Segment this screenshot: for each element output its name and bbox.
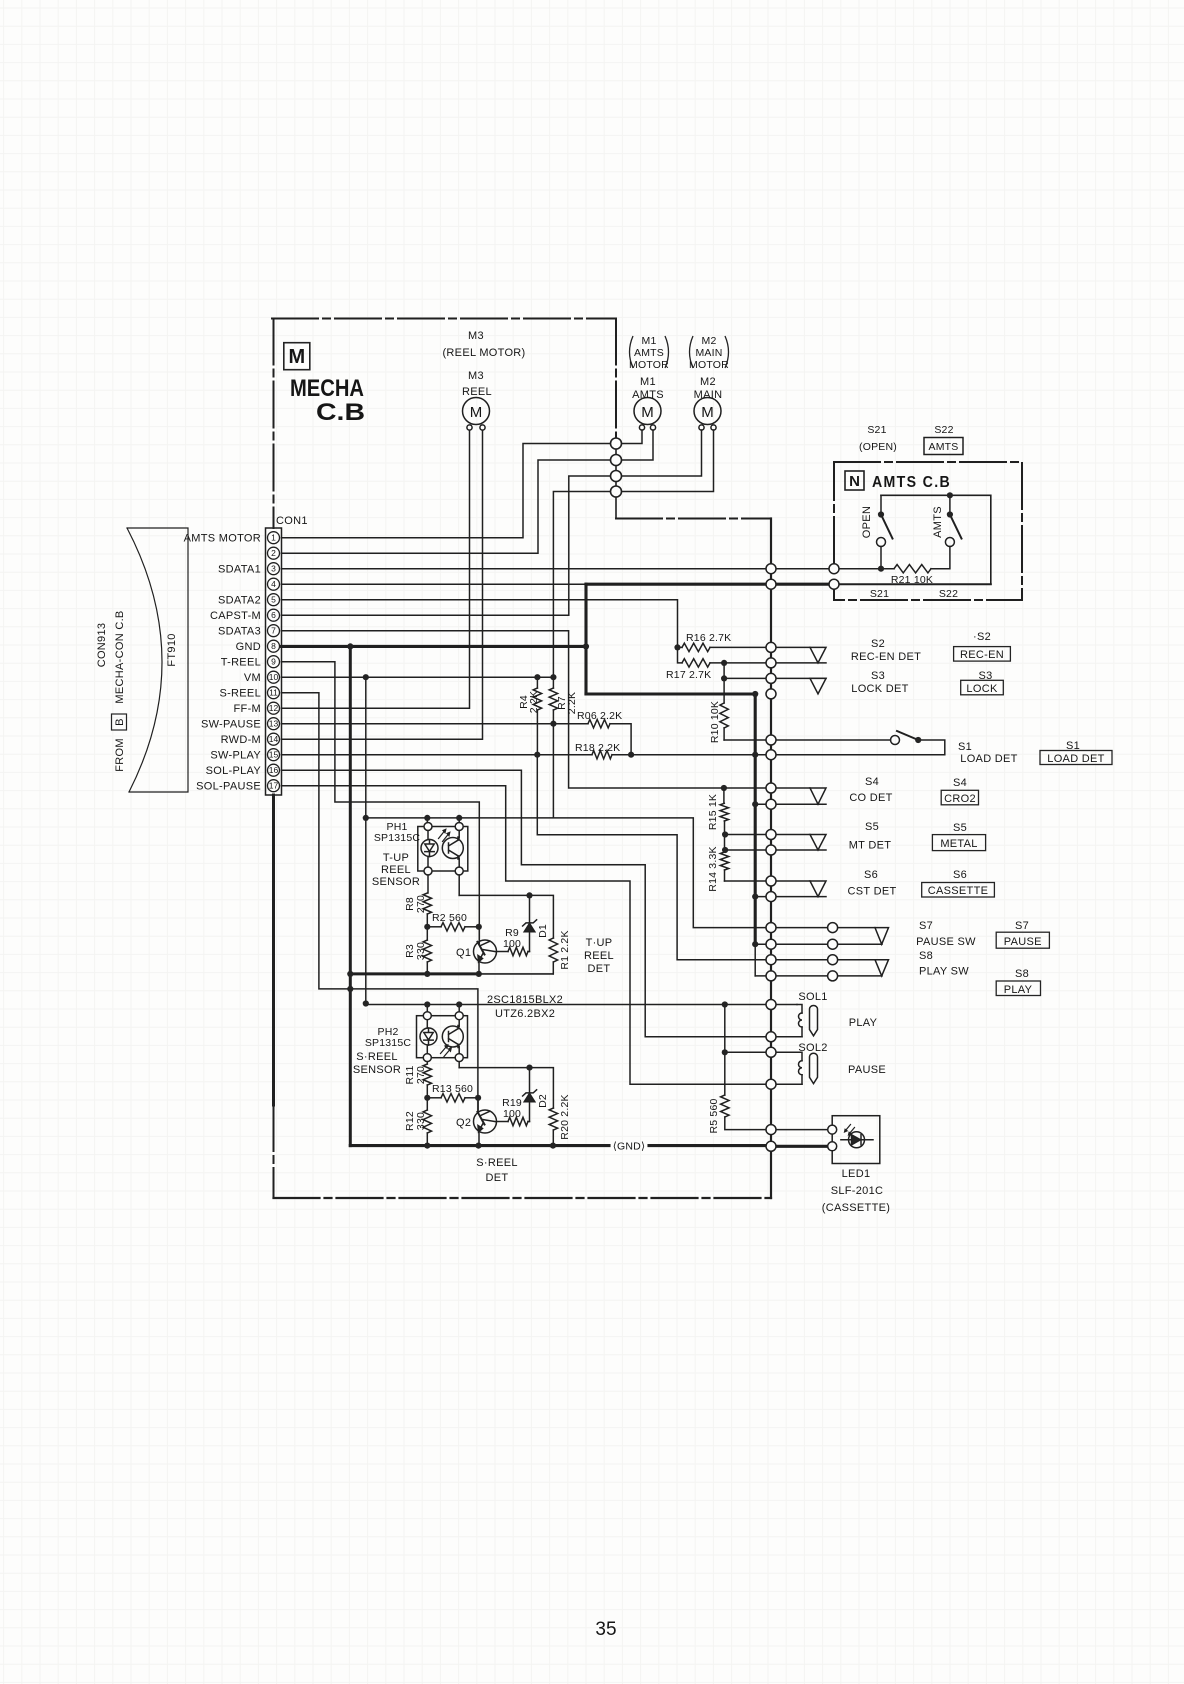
LED1 terminal circles xyxy=(828,1125,837,1151)
label pin 5 SDATA2 xyxy=(218,595,261,607)
label R4 2.2K (rotated) xyxy=(518,695,530,709)
motor M2 symbol xyxy=(694,398,721,431)
svg-text:⟨GND⟩: ⟨GND⟩ xyxy=(613,1141,646,1153)
node: connector arrow triangle S7 xyxy=(875,928,889,945)
node: CON1 pin 6 xyxy=(268,609,280,621)
label .S2 and box REC-EN xyxy=(954,631,1011,661)
resistor R5 560 xyxy=(721,1052,766,1129)
svg-text:LOCK: LOCK xyxy=(966,683,998,695)
label R10 10K (rotated) xyxy=(709,701,721,743)
svg-text:CAPST-M: CAPST-M xyxy=(210,610,261,622)
svg-text:REEL: REEL xyxy=(584,950,614,962)
solenoid SOL2 coil xyxy=(776,1052,803,1084)
wire: SOL1 top feed from VM supply xyxy=(366,1004,797,1005)
wire: LED1 anode row xyxy=(776,1129,828,1131)
label S7 and box PAUSE xyxy=(996,920,1049,948)
label S2 REC-EN DET xyxy=(851,638,921,663)
svg-text:S21: S21 xyxy=(870,588,889,600)
label T-UP REEL DET xyxy=(584,937,614,975)
svg-text:S·REEL: S·REEL xyxy=(476,1157,518,1169)
resistor R7 2.2K (pull-up from VM) xyxy=(549,677,557,724)
label CON913 (rotated) xyxy=(96,623,108,668)
svg-text:S1: S1 xyxy=(958,741,972,753)
svg-text:Q2: Q2 xyxy=(456,1117,471,1129)
svg-text:FROM: FROM xyxy=(114,738,126,772)
node: connector arrow triangle S2 xyxy=(810,647,826,663)
node: CON1 pin 15 xyxy=(268,749,280,761)
label Q2 xyxy=(456,1117,471,1129)
wire: AMTS inner circuit frame xyxy=(881,495,991,584)
label S5 MT DET xyxy=(849,821,892,852)
svg-text:R13 560: R13 560 xyxy=(432,1083,473,1095)
svg-text:S6: S6 xyxy=(953,869,967,881)
svg-text:S3: S3 xyxy=(871,670,885,682)
svg-text:T·UP: T·UP xyxy=(586,937,613,949)
wire: SW-PLAY chain down to S8 PLAY SW row xyxy=(537,755,875,960)
photo-interrupter PH2 box xyxy=(417,1016,468,1058)
wire: MECHA C.B board border right / junction bus vertical xyxy=(770,519,772,1199)
wire: M1 AMTS motor leads to junction circles xyxy=(622,430,654,460)
label OPEN (rotated) xyxy=(861,506,873,538)
svg-text:AMTS: AMTS xyxy=(929,441,959,453)
label Q1 xyxy=(456,947,471,959)
svg-text:R1 2.2K: R1 2.2K xyxy=(559,930,571,969)
svg-text:PAUSE: PAUSE xyxy=(1004,936,1042,948)
label pin 3 SDATA1 xyxy=(218,564,261,576)
svg-text:M2: M2 xyxy=(700,376,716,388)
svg-text:R14 3.3K: R14 3.3K xyxy=(707,846,719,891)
svg-text:330: 330 xyxy=(415,942,427,960)
svg-text:·S2: ·S2 xyxy=(973,631,991,643)
label R5 560 (rotated) xyxy=(708,1098,720,1133)
node: CON1 pin 9 xyxy=(268,656,280,668)
resistor R11 270 xyxy=(423,1064,431,1098)
label pin 7 SDATA3 xyxy=(218,626,261,638)
svg-text:16: 16 xyxy=(269,765,279,775)
wire: thick bus vertical at x=755 xyxy=(754,694,757,976)
wire: AMTS C.B border (dash-dot) xyxy=(834,462,1022,600)
label S22 above xyxy=(934,424,953,436)
svg-text:D1: D1 xyxy=(537,924,549,938)
svg-text:M1: M1 xyxy=(642,335,657,347)
svg-text:R10 10K: R10 10K xyxy=(709,701,721,743)
svg-text:SP1315C: SP1315C xyxy=(374,832,421,844)
resistor R21 10K body xyxy=(894,565,931,573)
label M2 MAIN xyxy=(694,376,723,401)
svg-text:S21: S21 xyxy=(867,424,886,436)
label R19 100 xyxy=(502,1097,522,1120)
label S8 PLAY SW xyxy=(919,950,969,978)
svg-text:MOTOR: MOTOR xyxy=(689,359,729,371)
svg-text:AMTS: AMTS xyxy=(632,389,664,401)
label pin 9 T-REEL xyxy=(221,657,261,669)
svg-text:2.2K: 2.2K xyxy=(566,692,578,714)
node junction dots xyxy=(347,643,353,649)
label R14 3.3K (rotated) xyxy=(707,846,719,891)
svg-text:M1: M1 xyxy=(640,376,656,388)
node: CON1 pin 2 xyxy=(268,547,280,559)
svg-text:LOAD DET: LOAD DET xyxy=(1047,753,1104,765)
svg-text:S22: S22 xyxy=(939,588,958,600)
phototransistor inside PH1 xyxy=(442,837,463,859)
svg-text:270: 270 xyxy=(415,1066,427,1084)
wire: pin15 SW-PLAY / R18 row to S1 switch xyxy=(282,740,945,755)
label R18 2.2K xyxy=(575,742,620,754)
resistor R20 2.2K xyxy=(549,1108,557,1146)
label S7 PAUSE SW xyxy=(916,920,976,948)
label pin 1 AMTS MOTOR xyxy=(184,533,261,545)
wire: junction circle row4 to VM line xyxy=(553,492,610,678)
svg-text:MECHA: MECHA xyxy=(290,375,364,402)
resistor R15 1K xyxy=(720,788,728,850)
svg-text:REC-EN: REC-EN xyxy=(960,649,1004,661)
node: CON1 pin 10 xyxy=(268,671,280,683)
label R12 330 (rotated) xyxy=(404,1111,416,1131)
svg-text:FT910: FT910 xyxy=(166,633,178,666)
solenoid SOL1 coil xyxy=(776,1005,803,1037)
svg-text:PAUSE: PAUSE xyxy=(848,1064,886,1076)
wire: pin8 GND thick row xyxy=(282,645,587,648)
label M1 AMTS xyxy=(632,376,664,401)
node: CON1 pin 13 xyxy=(268,718,280,730)
label R1 2.2K (rotated) xyxy=(559,930,571,969)
label R15 1K (rotated) xyxy=(707,794,719,830)
label S21 (OPEN) above xyxy=(859,424,897,453)
resistor R14 3.3K xyxy=(720,852,728,881)
label S21 bottom xyxy=(870,588,889,600)
label pin 10 VM xyxy=(244,672,261,684)
node: connector arrow triangle S3 xyxy=(810,678,826,694)
node: CON1 pin 12 xyxy=(268,702,280,714)
label R9 100 xyxy=(503,927,521,950)
zener diode D2 xyxy=(523,1068,537,1122)
wire: pin6 CAPST-M to junction circle row3 xyxy=(282,476,611,615)
svg-text:PLAY: PLAY xyxy=(849,1017,878,1029)
svg-text:SDATA3: SDATA3 xyxy=(218,626,261,638)
svg-text:2: 2 xyxy=(271,548,276,558)
node: board-edge circles on MECHA right bus xyxy=(766,564,776,574)
transistor Q1 xyxy=(474,927,497,974)
svg-text:REEL: REEL xyxy=(462,386,492,398)
label pin 12 FF-M xyxy=(234,703,261,715)
svg-text:S7: S7 xyxy=(919,920,933,932)
svg-text:15: 15 xyxy=(269,750,279,760)
svg-text:M: M xyxy=(288,346,305,368)
label S1 and box LOAD DET xyxy=(1040,740,1112,765)
wire: VM vertical supply drop x=366 xyxy=(365,677,367,1003)
resistor R12 330 xyxy=(423,1098,431,1146)
node: circles on S7/S8 rows x=832.6 xyxy=(828,923,838,933)
wire: M2 MAIN motor leads to junction circles xyxy=(622,430,714,492)
svg-text:10: 10 xyxy=(269,672,279,682)
connector CON913 cable bracket xyxy=(127,528,188,792)
wire: SOL2 top feed and R5 tap xyxy=(725,1005,797,1053)
wire: PH2 LED terminal leads xyxy=(426,1005,428,1065)
resistor R13 560 xyxy=(427,1094,478,1102)
label R16 2.7K xyxy=(686,632,731,644)
node: CON1 pin 11 xyxy=(268,687,280,699)
wire: MECHA C.B board border left solid segment below CON1 xyxy=(272,795,275,1105)
svg-text:DET: DET xyxy=(588,963,611,975)
node: CON1 pin 8 xyxy=(268,640,280,652)
svg-text:SOL2: SOL2 xyxy=(798,1042,827,1054)
solenoid SOL1 plunger xyxy=(810,1006,818,1036)
svg-text:R21 10K: R21 10K xyxy=(891,574,933,586)
svg-text:M2: M2 xyxy=(702,335,717,347)
svg-text:SP1315C: SP1315C xyxy=(365,1037,412,1049)
label S4 CO DET xyxy=(849,776,892,804)
svg-text:VM: VM xyxy=(244,672,261,684)
wire: S5 MT DET row A xyxy=(725,834,810,836)
svg-text:RWD-M: RWD-M xyxy=(221,734,261,746)
svg-text:S5: S5 xyxy=(953,822,967,834)
svg-text:35: 35 xyxy=(595,1619,616,1640)
LED inside PH2 xyxy=(420,1028,437,1045)
wire: pin1 AMTS MOTOR to junction circle row1 xyxy=(282,444,611,538)
phototransistor inside PH2 xyxy=(442,1026,463,1048)
svg-text:S8: S8 xyxy=(1015,968,1029,980)
wire: pin3 SDATA1 line to AMTS C.B xyxy=(282,547,950,569)
svg-text:SW-PAUSE: SW-PAUSE xyxy=(201,719,261,731)
label M1 AMTS MOTOR with parens xyxy=(629,335,669,371)
label pin 13 SW-PAUSE xyxy=(201,719,261,731)
wire: MECHA C.B board border left lower (dash-dot) xyxy=(273,1105,275,1198)
svg-text:M: M xyxy=(641,404,654,421)
wire: pin5 SDATA2 drop to R16 xyxy=(282,600,678,648)
wire: pin9 T-REEL to Q1 xyxy=(282,662,480,940)
PH1 terminal circles xyxy=(424,823,432,831)
wire: PH1 phototransistor leads xyxy=(458,818,460,896)
label R21 10K xyxy=(891,574,933,586)
label FROM B MECHA-CON C.B (rotated) xyxy=(114,738,126,772)
svg-text:2.2K: 2.2K xyxy=(528,691,540,713)
label S8 and box PLAY xyxy=(996,968,1040,996)
wire: thick bus horizontal y=694 xyxy=(586,692,755,695)
svg-text:4: 4 xyxy=(271,579,276,589)
wire: T-UP sensor ground rail xyxy=(350,972,553,975)
svg-text:SOL-PAUSE: SOL-PAUSE xyxy=(196,781,261,793)
resistor R16 2.7K xyxy=(678,643,811,651)
wire: MECHA C.B board border right upper (dash-dot) xyxy=(615,319,617,438)
svg-text:SOL-PLAY: SOL-PLAY xyxy=(206,765,262,777)
label R7 2.2K (rotated) xyxy=(556,696,568,710)
label M2 MAIN MOTOR with parens xyxy=(689,335,729,371)
label SOL1 PLAY xyxy=(798,991,877,1029)
svg-text:330: 330 xyxy=(415,1112,427,1130)
label pin 11 S-REEL xyxy=(219,688,261,700)
svg-text:PAUSE SW: PAUSE SW xyxy=(916,936,976,948)
svg-text:11: 11 xyxy=(269,688,278,698)
svg-text:S22: S22 xyxy=(934,424,953,436)
wire: pin7 SDATA3 to S4 CO DET row xyxy=(282,631,811,788)
node: connector arrow triangle S5 xyxy=(810,835,826,851)
LED1 box xyxy=(832,1116,880,1164)
svg-text:LOCK DET: LOCK DET xyxy=(851,683,908,695)
wire: pin4/VC thick bus to AMTS C.B xyxy=(586,583,991,586)
wire: thick bus vertical at x=586 xyxy=(584,584,587,694)
svg-text:D2: D2 xyxy=(537,1094,549,1108)
svg-text:M: M xyxy=(701,404,714,421)
LED inside PH1 xyxy=(421,840,438,857)
svg-text:CRO2: CRO2 xyxy=(944,793,976,805)
svg-text:S·REEL: S·REEL xyxy=(356,1051,398,1063)
label PH1 SP1315C xyxy=(374,821,421,844)
zener diode D1 xyxy=(523,895,537,951)
svg-text:REEL: REEL xyxy=(381,864,411,876)
svg-text:270: 270 xyxy=(415,895,427,913)
connector CON1 body xyxy=(266,528,282,795)
svg-text:S8: S8 xyxy=(919,950,933,962)
wire: MECHA C.B border vertical through junction circles xyxy=(615,438,617,519)
label M3 REEL xyxy=(462,370,492,398)
svg-text:LED1: LED1 xyxy=(842,1168,871,1180)
box: board designator M xyxy=(284,343,310,370)
svg-text:FF-M: FF-M xyxy=(234,703,261,715)
svg-text:REC-EN DET: REC-EN DET xyxy=(851,651,921,663)
svg-text:MECHA-CON C.B: MECHA-CON C.B xyxy=(114,610,126,703)
label D1 (rotated) xyxy=(537,924,549,938)
svg-text:CASSETTE: CASSETTE xyxy=(928,885,988,897)
svg-text:B: B xyxy=(114,718,126,726)
label S1 LOAD DET xyxy=(958,741,1018,765)
svg-text:S4: S4 xyxy=(953,777,967,789)
svg-text:S4: S4 xyxy=(865,776,879,788)
svg-text:12: 12 xyxy=(269,703,279,713)
svg-text:R5 560: R5 560 xyxy=(708,1098,720,1133)
svg-text:CON913: CON913 xyxy=(96,623,108,668)
svg-text:MAIN: MAIN xyxy=(695,347,722,359)
wire: S5 MT DET row B xyxy=(725,849,826,851)
svg-text:GND: GND xyxy=(236,641,261,653)
wire: pin14 RWD-M to motor M3 right terminal xyxy=(282,430,483,739)
light arrows into PH2 phototransistor xyxy=(441,1045,452,1057)
wire: T-UP emitter row to R1 xyxy=(459,895,553,938)
label pin 17 SOL-PAUSE xyxy=(196,781,261,793)
svg-text:SDATA2: SDATA2 xyxy=(218,595,261,607)
label pin 8 GND xyxy=(236,641,261,653)
svg-text:METAL: METAL xyxy=(940,838,977,850)
svg-text:AMTS: AMTS xyxy=(634,347,664,359)
node (GND) label on bottom rail xyxy=(613,1141,646,1153)
node: CON1 pin 3 xyxy=(268,563,280,575)
switch S21 OPEN xyxy=(877,495,893,568)
motor M1 symbol xyxy=(634,398,661,431)
svg-text:13: 13 xyxy=(269,719,279,729)
resistor R2 560 xyxy=(427,923,479,931)
node: connector arrow triangle S8 xyxy=(875,960,889,976)
switch S22 AMTS xyxy=(945,495,961,546)
label AMTS C.B title xyxy=(872,474,951,491)
svg-text:8: 8 xyxy=(271,641,276,651)
label MECHA C.B title xyxy=(290,375,365,426)
svg-text:SLF-201C: SLF-201C xyxy=(831,1185,884,1197)
svg-text:SDATA1: SDATA1 xyxy=(218,564,261,576)
light arrows into PH1 phototransistor xyxy=(439,829,450,841)
svg-text:M3: M3 xyxy=(468,370,484,382)
resistor R17 2.7K xyxy=(678,647,827,667)
wire: S7 PAUSE SW row B from thick bus xyxy=(755,943,882,945)
svg-text:T-REEL: T-REEL xyxy=(221,657,261,669)
svg-text:100: 100 xyxy=(503,1108,521,1120)
label R13 560 xyxy=(432,1083,473,1095)
wire: pin4 row thin segment xyxy=(282,583,587,585)
wire: R17 junction to S3 row xyxy=(724,663,826,679)
svg-text:3: 3 xyxy=(271,564,276,574)
svg-text:100: 100 xyxy=(503,938,521,950)
label SOL2 PAUSE xyxy=(798,1042,886,1076)
wire: pin16 SOL-PLAY to SOL1 xyxy=(282,770,803,1037)
svg-text:N: N xyxy=(849,473,860,490)
wire: bottom ground rail to LED1 xyxy=(350,1144,827,1148)
resistor R18 2.2K body xyxy=(592,751,612,759)
wire: S-REEL emitter row to R20 xyxy=(459,1068,553,1108)
svg-text:C.B: C.B xyxy=(316,399,365,426)
label R17 2.7K xyxy=(666,669,711,681)
wire: pin17 SOL-PAUSE to SOL2 xyxy=(282,786,803,1084)
label S3 and box LOCK xyxy=(961,670,1004,695)
box label AMTS xyxy=(924,438,963,455)
wire: MECHA C.B board border top (dash-dot) xyxy=(272,318,616,320)
svg-text:R06 2.2K: R06 2.2K xyxy=(577,710,622,722)
label S4 and box CRO2 xyxy=(941,777,978,805)
switch S1 contact xyxy=(891,731,919,745)
svg-text:5: 5 xyxy=(271,595,276,605)
label S5 and box METAL xyxy=(932,822,985,851)
svg-text:CON1: CON1 xyxy=(276,515,308,527)
svg-text:OPEN: OPEN xyxy=(861,506,873,538)
resistor R10 10K xyxy=(720,678,728,740)
svg-text:R2 560: R2 560 xyxy=(432,912,467,924)
svg-text:R15 1K: R15 1K xyxy=(707,794,719,830)
label S6 CST DET xyxy=(848,869,897,898)
node: board-edge junction circles row1-4 xyxy=(611,438,622,449)
svg-text:PLAY: PLAY xyxy=(1004,984,1033,996)
wire: S6 CST DET row B from thick bus xyxy=(755,896,826,898)
svg-text:(OPEN): (OPEN) xyxy=(859,441,897,453)
box: AMTS C.B N designator xyxy=(845,471,864,490)
label R8 270 (rotated) xyxy=(404,897,416,911)
svg-text:S7: S7 xyxy=(1015,920,1029,932)
wire: MECHA C.B board border bottom (dash-dot) xyxy=(274,1197,772,1199)
svg-text:T-UP: T-UP xyxy=(383,852,409,864)
svg-text:SW-PLAY: SW-PLAY xyxy=(210,750,261,762)
node: CON1 pin 1 xyxy=(268,532,280,544)
wire: MECHA C.B border jog horizontal (dash-dot) xyxy=(616,518,771,520)
resistor R8 270 xyxy=(423,893,431,927)
svg-text:MOTOR: MOTOR xyxy=(629,359,669,371)
wire: pin11 S-REEL to Q2 xyxy=(282,693,478,1111)
node: CON1 pin 17 xyxy=(268,780,280,792)
wire: MECHA C.B board border left upper (dash-dot) xyxy=(273,319,275,529)
wire: PH1 LED terminal leads xyxy=(426,818,429,893)
label CON1 xyxy=(276,515,308,527)
label pin 15 SW-PLAY xyxy=(210,750,261,762)
svg-text:S5: S5 xyxy=(865,821,879,833)
svg-text:17: 17 xyxy=(269,781,279,791)
svg-text:DET: DET xyxy=(486,1172,509,1184)
label R06 2.2K xyxy=(577,710,622,722)
wire: pin13 SW-PAUSE row xyxy=(282,724,632,755)
label 2SC1815BLX2 UTZ6.2BX2 xyxy=(487,994,563,1020)
wire: PH2 phototransistor leads xyxy=(458,1005,460,1068)
svg-text:7: 7 xyxy=(271,626,276,636)
label PH2 SP1315C xyxy=(365,1026,412,1049)
node: CON1 pin 14 xyxy=(268,733,280,745)
svg-text:S-REEL: S-REEL xyxy=(219,688,261,700)
node: board-edge circles on AMTS C.B left border xyxy=(829,564,839,590)
svg-text:R16 2.7K: R16 2.7K xyxy=(686,632,731,644)
label R2 560 xyxy=(432,912,467,924)
